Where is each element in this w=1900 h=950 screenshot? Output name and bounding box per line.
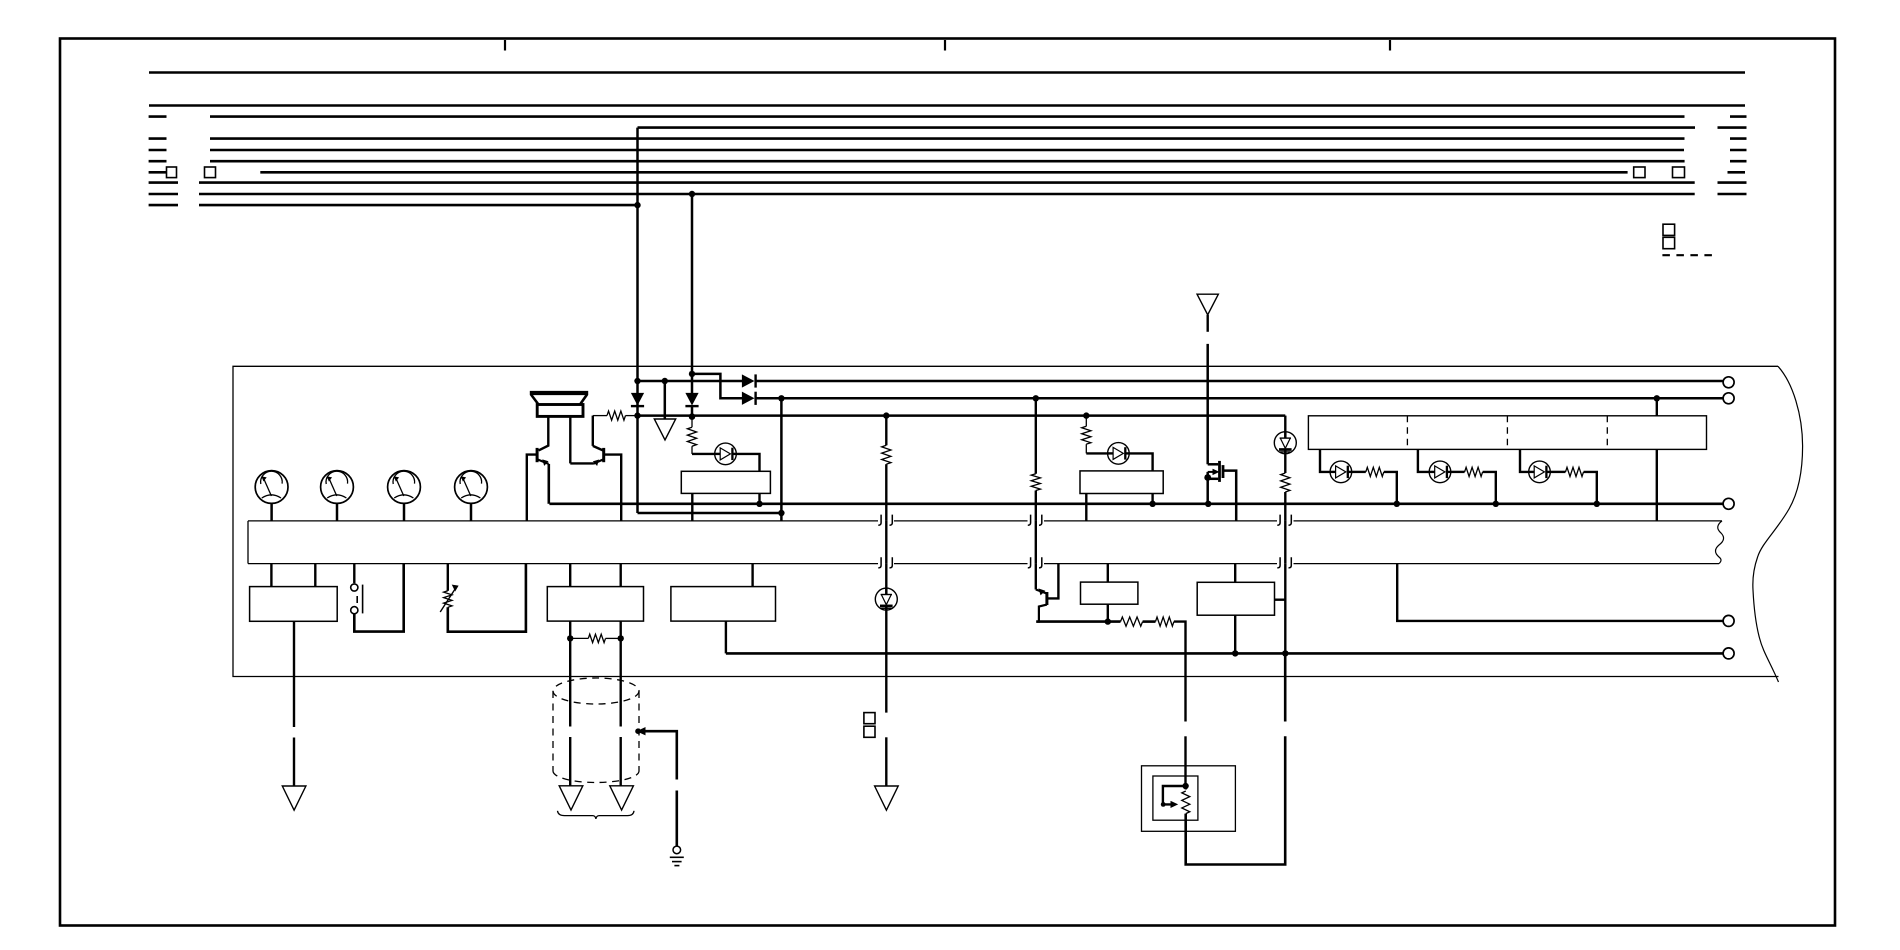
wire R7 down [1384, 472, 1397, 504]
wire rail 381 right [756, 380, 1724, 383]
mosfet source arrow [1208, 471, 1214, 473]
node B4/wire [1105, 618, 1111, 624]
connector square Q1b [864, 726, 875, 737]
wire to LED1 [692, 453, 715, 455]
wire row C stub left [149, 115, 167, 118]
box logic divider 1 [1406, 416, 1408, 450]
wire row D stub right [1718, 126, 1747, 129]
wire to LED2 [1086, 452, 1108, 454]
box B5 [1197, 582, 1274, 615]
wire B4 lead top [1107, 564, 1109, 583]
wire lamp886 mid [885, 610, 887, 713]
node rail415 x1086 [1083, 412, 1089, 418]
wire rail 398 elbow [692, 374, 742, 398]
resistor R10 [570, 637, 588, 639]
wire row J stub right [1718, 193, 1747, 196]
wire rail 381 left [638, 380, 743, 383]
wire sender vert [1185, 786, 1187, 790]
wire sender return upper [1284, 653, 1287, 721]
wire row K stub left [149, 204, 178, 207]
box logic divider 2 [1506, 416, 1508, 450]
mosfet drain wire [1223, 471, 1236, 521]
wire row J [199, 193, 1695, 196]
wire vertical 781 [780, 398, 783, 521]
antenna wire lower [1206, 344, 1209, 464]
brace speed sensor [558, 811, 635, 819]
wire emitter rail [570, 462, 593, 464]
wire S1 return [354, 564, 403, 632]
node lamp1285/rail653 [1282, 650, 1288, 656]
node R10 right [618, 635, 624, 641]
wire B1 output upper [293, 621, 295, 727]
wire lamp down [1284, 453, 1286, 473]
cluster box outline [233, 366, 1779, 676]
wire row G [210, 160, 1685, 163]
box B2 [547, 587, 643, 622]
resistor R11 [1121, 617, 1143, 626]
box logic [1308, 416, 1706, 450]
wire LED5 lead [1520, 449, 1529, 472]
wire shield left lower [569, 737, 571, 786]
pin bracket band top x886 [878, 515, 881, 526]
node sender input [1182, 783, 1188, 789]
dashed continuation wire [1662, 254, 1717, 256]
switch S1 blade [362, 585, 364, 614]
LED L1 [715, 443, 737, 465]
resistor R12 [1156, 617, 1174, 626]
connector square H2 [205, 167, 216, 178]
resistor R9 [1566, 467, 1584, 476]
wire B2 lead 2 [620, 564, 622, 587]
wire sender feed lower [1184, 736, 1186, 786]
wire VR1 lead [447, 564, 449, 591]
node rail415 x886 [883, 412, 889, 418]
wire vertical from row D [636, 128, 639, 513]
arrow lamp886 ground [875, 786, 899, 810]
wire B4 lead bottom [1107, 604, 1109, 621]
fold tick 2 [944, 40, 946, 51]
terminal T2 [1723, 393, 1734, 404]
wire logic down [1656, 449, 1658, 521]
wire LED6 to resistor [1550, 471, 1566, 473]
wire row E stub right [1730, 137, 1747, 140]
pin bracket band bottom x886 [878, 557, 881, 568]
node rail398 x781 [778, 395, 784, 401]
sender wiper [1163, 786, 1186, 804]
wire B3 lead [751, 564, 753, 587]
resistor R5 [1035, 398, 1037, 473]
resistor R3 [1085, 416, 1087, 427]
transistor Q3 emitter [1036, 590, 1046, 594]
resistor R6 [1281, 473, 1290, 492]
node rail503 x1208 [1205, 501, 1211, 507]
band torn end [1716, 521, 1724, 564]
band top edge [248, 520, 878, 522]
rheostat VR1 [444, 591, 452, 608]
wire IC2 lead left [1085, 494, 1087, 521]
node B5/rail653 [1232, 650, 1238, 656]
transistor Q1 bar [536, 448, 539, 462]
wire LED5 to resistor [1450, 471, 1464, 473]
mosfet gate wire [1208, 463, 1219, 466]
wire sender feed [1174, 622, 1186, 722]
box logic divider 3 [1606, 416, 1608, 450]
fold tick 3 [1389, 40, 1391, 51]
wire B2 out right [620, 621, 622, 638]
wire S1 lead [353, 564, 355, 584]
pin bracket band top x1036 [1028, 515, 1031, 526]
wire rail 503 [549, 502, 1723, 505]
mosfet channel bar [1222, 465, 1225, 478]
band bottom edge [248, 563, 878, 565]
connector square H3 [1634, 167, 1645, 178]
wire IC1 lead left [691, 493, 693, 521]
LED L5 [1429, 461, 1451, 483]
node shield ground tap [638, 728, 645, 735]
terminal T1 [1723, 377, 1734, 388]
LED L6 [1529, 461, 1551, 483]
speaker lead left / Q1 collector [539, 416, 549, 450]
wire LED3 lead [1320, 449, 1331, 472]
speaker horn mouth [530, 391, 588, 395]
wire rail 653 [726, 652, 1723, 655]
arrow shield wire right [610, 786, 634, 810]
wire B2 out left [569, 621, 571, 638]
gauge G2 lead [336, 503, 339, 521]
wire B1 lead 2 [314, 564, 316, 587]
wire row J stub left [149, 193, 178, 196]
connector square H1 [167, 167, 177, 178]
mosfet source lower lead [1208, 478, 1219, 481]
wire shield ground lower [675, 791, 678, 847]
node 781/513 [778, 510, 784, 516]
wire lamp band below [1284, 564, 1286, 654]
wire row H stub left [149, 171, 167, 174]
node D2 top [689, 371, 695, 377]
gauge G3 lead [403, 503, 406, 521]
wire 513 link [638, 512, 782, 515]
shield cylinder side right [638, 691, 640, 771]
connector square P2 [1663, 237, 1675, 248]
band left edge [247, 521, 249, 564]
pin bracket band bottom x1285 [1277, 557, 1280, 568]
transistor Q3 collector wire [1036, 605, 1047, 622]
speaker horn side left [531, 395, 539, 405]
LED L2 [1108, 443, 1130, 465]
mosfet gate bar [1218, 461, 1221, 482]
transistor Q2 emitter [593, 460, 603, 464]
wire LED4 to resistor [1351, 471, 1366, 473]
transistor Q2 base wire [604, 455, 622, 521]
LED L4 [1330, 461, 1352, 483]
wire row G stub left [149, 160, 167, 163]
wire LED4 lead [1418, 449, 1430, 472]
box B1 [250, 587, 338, 622]
transistor Q2 bar [602, 448, 605, 462]
ground G1 [673, 846, 681, 854]
wire source down [1206, 472, 1209, 504]
wire Q3 feed [1035, 564, 1037, 590]
wire shield right lower [620, 737, 622, 786]
transistor Q2 collector [593, 446, 603, 451]
diode D3 [742, 375, 753, 387]
wire B5 lead top [1234, 564, 1236, 583]
sender inner box [1153, 776, 1198, 820]
pin bracket band top x1285 [1277, 515, 1280, 526]
wire band to T4 [1397, 564, 1723, 621]
node IC2/rail503 [1149, 501, 1155, 507]
transistor Q1 base wire [527, 455, 537, 521]
wire Q3 out [1036, 620, 1120, 623]
transistor Q3 bar [1045, 592, 1048, 605]
wire row F stub left [149, 149, 167, 152]
wire x1036 through band [1035, 521, 1037, 564]
terminal T3 [1723, 498, 1734, 509]
diode D2 [686, 393, 698, 404]
wire triangle drop [664, 381, 667, 419]
connector square H4 [1673, 167, 1685, 178]
wire shield left upper [569, 638, 571, 726]
lamp L3 [1274, 432, 1296, 454]
switch S1 contact top [351, 584, 358, 591]
resistor R8 [1465, 467, 1483, 476]
wire row A [149, 71, 1745, 74]
node LED6/rail503 [1594, 501, 1600, 507]
wire rail 415 [638, 414, 1286, 417]
box IC1 [681, 471, 770, 493]
wire row H stub right [1728, 171, 1746, 174]
node mosfet source [1204, 474, 1211, 481]
wire IC1 lead right [758, 493, 760, 503]
wire R8 down [1483, 472, 1496, 504]
wire row H [260, 171, 1627, 174]
node row K to vertical [634, 202, 640, 208]
wire row I [199, 181, 1695, 184]
sender outer box [1142, 766, 1236, 832]
wire row G stub right [1730, 160, 1747, 163]
arrow head open [654, 419, 675, 440]
wire vertical 692 mid [691, 374, 694, 394]
wire row C stub right [1730, 115, 1747, 118]
wire rail415 drop [1284, 416, 1286, 433]
wire shield right upper [620, 638, 622, 726]
wire B1 lead 1 [270, 564, 272, 587]
connector square P1 [1663, 224, 1675, 235]
diode D1 [632, 393, 644, 404]
node LED4/rail503 [1394, 501, 1400, 507]
node D2 bottom [689, 413, 695, 419]
shield cylinder side left [552, 691, 554, 771]
gauge G1 [255, 471, 288, 504]
wire B2 lead 1 [569, 564, 571, 587]
speaker horn side right [580, 395, 587, 405]
arrow shield wire left [559, 786, 583, 810]
node D1 bottom [634, 412, 640, 418]
wire B1 output lower [293, 738, 295, 787]
wire row K [199, 204, 638, 207]
wire B5 lead right [1275, 599, 1286, 601]
resistor R2 [691, 417, 693, 428]
wire row E stub left [149, 137, 167, 140]
shield cylinder bottom [553, 771, 639, 783]
node rail398 x1657 [1654, 395, 1660, 401]
resistor R4 [885, 416, 887, 446]
wire R9 down [1584, 472, 1597, 504]
pin bracket band bottom x1036 [1028, 557, 1031, 568]
resistor R7 [1366, 467, 1384, 476]
wire x886 through band [885, 521, 887, 564]
wire lamp886 upper [885, 564, 887, 589]
node LED5/rail503 [1493, 501, 1499, 507]
gauge G4 [455, 471, 488, 504]
box B4 [1081, 582, 1138, 604]
arrow B1 ground [282, 786, 306, 810]
speaker lead right [569, 416, 571, 463]
terminal T5 [1723, 648, 1734, 659]
box IC2 [1080, 471, 1163, 494]
wire row B [149, 104, 1745, 107]
resistor R1 [593, 415, 607, 417]
wire x1285 through band [1284, 521, 1286, 564]
terminal T4 [1723, 615, 1734, 626]
antenna triangle [1197, 294, 1218, 315]
resistor R13 sender [1182, 791, 1190, 814]
lamp L6 [875, 588, 897, 610]
switch S1 contact bottom [351, 607, 358, 614]
diode D4 [742, 393, 753, 405]
wire row E [210, 137, 1685, 140]
wire 692 below diode [691, 406, 694, 417]
gauge G1 lead [270, 503, 273, 521]
speaker body [537, 405, 583, 417]
wire row I stub left [149, 181, 178, 184]
gauge G2 [321, 471, 354, 504]
wire rail 398 right [756, 397, 1724, 400]
wire IC2 lead right [1151, 494, 1153, 504]
wire vertical from row J [689, 191, 695, 197]
wire VR1 return [448, 564, 526, 632]
node rail381 triangle tap [662, 378, 668, 384]
connector square Q1a [864, 713, 875, 724]
wire sender return [1186, 736, 1286, 864]
cluster box torn edge [1753, 366, 1803, 682]
wire LED1 out [736, 454, 760, 471]
fold tick 1 [504, 40, 506, 51]
switch S1 dash [356, 596, 358, 603]
node R10 left [567, 635, 573, 641]
wire B3 out [725, 621, 727, 653]
wire LED2 out [1128, 453, 1152, 471]
node rail398 x1036 [1033, 395, 1039, 401]
transistor Q3 base wire [1047, 564, 1059, 599]
node IC1/rail503 [756, 501, 762, 507]
box B3 [671, 587, 776, 622]
wire logic feed [1656, 398, 1658, 416]
wire row I stub right [1718, 181, 1747, 184]
gauge G3 [388, 471, 421, 504]
gauge G4 lead [470, 503, 473, 521]
wire row D [638, 126, 1696, 129]
node rail415 x692 [689, 413, 695, 419]
wire row C [210, 115, 1685, 118]
wire shield ground [638, 731, 677, 779]
shield cylinder top [553, 678, 639, 704]
transistor Q1 emitter [538, 460, 549, 464]
wire R11-R12 [1143, 620, 1156, 623]
wire B5 lead bottom [1234, 615, 1236, 653]
wire row F [210, 149, 1684, 152]
antenna wire upper [1206, 315, 1208, 332]
wire lamp886 lower [885, 737, 887, 786]
wire row F stub right [1730, 149, 1747, 152]
node D1 top [634, 378, 640, 384]
wire Q1 emitter down [547, 464, 550, 504]
